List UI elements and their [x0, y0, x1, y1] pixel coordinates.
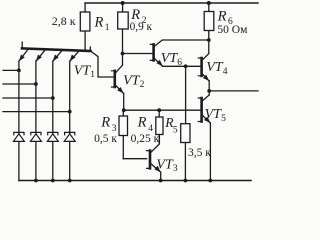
diode VD1: [13, 132, 24, 141]
wire input emitter line 3: [3, 61, 53, 181]
wire input emitter line 4: [3, 61, 70, 181]
svg-text:R: R: [217, 9, 227, 25]
svg-text:R: R: [137, 114, 147, 130]
label VT3: [156, 157, 178, 174]
label R4: [137, 114, 154, 134]
svg-text:0,25 к: 0,25 к: [131, 133, 160, 145]
node dot rail VT5 emitter: [208, 179, 212, 183]
node dot rail VT3 emitter: [159, 179, 163, 183]
node dot input 2: [34, 82, 38, 86]
resistor R3: [119, 110, 128, 159]
transistor VT5: [198, 95, 210, 181]
node dot input 3: [51, 96, 55, 100]
transistor VT1 multi-emitter base bar: [22, 42, 91, 51]
transistor VT3: [147, 135, 161, 181]
node dot rail input2: [34, 179, 38, 183]
wire vertical A to R5: [185, 66, 187, 123]
label R3: [100, 114, 116, 134]
svg-text:5: 5: [221, 114, 226, 124]
svg-text:1: 1: [90, 70, 95, 80]
svg-text:VT: VT: [74, 64, 92, 79]
label VT2: [123, 73, 145, 90]
transistor VT2: [112, 65, 124, 110]
wire VT3 base lead from R3: [123, 158, 146, 160]
transistor VT4: [198, 40, 209, 95]
resistor R2: [118, 3, 129, 65]
resistor R5: [181, 124, 190, 181]
label R1: [94, 14, 110, 33]
svg-text:VT: VT: [123, 73, 141, 88]
wire top power rail: [85, 2, 258, 4]
node dot rail input4: [68, 179, 72, 183]
wire VT6 base lead: [123, 53, 153, 55]
diode VD3: [47, 132, 58, 141]
node dot R2 top rail: [121, 1, 125, 5]
wire bottom ground rail: [19, 180, 251, 182]
wire output line: [209, 90, 258, 92]
node dot input 1: [17, 69, 21, 73]
svg-text:5: 5: [173, 126, 178, 136]
label VT4: [206, 60, 228, 77]
svg-text:VT: VT: [205, 107, 223, 122]
svg-text:VT: VT: [161, 51, 179, 66]
label R6: [217, 9, 233, 28]
VT1 emitter 2: [36, 50, 45, 62]
node dot rail input3: [51, 179, 55, 183]
resistor R4: [156, 110, 163, 144]
diode VD2: [30, 132, 41, 141]
node dot output: [207, 89, 211, 93]
svg-text:R: R: [100, 114, 110, 130]
label VT5: [205, 107, 227, 124]
svg-text:VT: VT: [156, 157, 174, 172]
node dot VT2 emitter: [122, 108, 126, 112]
svg-text:0,9 к: 0,9 к: [130, 21, 153, 33]
svg-text:1: 1: [105, 23, 110, 33]
node dot VT6 base branch: [121, 52, 125, 56]
node dot VT4 base branch: [184, 64, 188, 68]
wire input emitter line 2: [3, 61, 36, 181]
node dot R6 bottom junction: [207, 38, 211, 42]
svg-text:50 Ом: 50 Ом: [217, 24, 248, 36]
resistor R1: [80, 3, 90, 51]
wire input emitter line 1: [3, 61, 19, 181]
svg-text:4: 4: [223, 67, 228, 77]
VT1 emitter 1: [19, 49, 28, 61]
svg-text:6: 6: [177, 58, 182, 68]
label VT6: [161, 51, 183, 68]
label R5: [164, 115, 178, 135]
node dot input 4: [68, 110, 72, 114]
label VT1: [74, 64, 96, 81]
svg-text:R: R: [94, 14, 104, 30]
resistor R6: [204, 3, 214, 40]
node dot rail R5: [184, 179, 188, 183]
svg-text:2: 2: [140, 80, 145, 90]
label R2: [130, 7, 147, 26]
svg-text:3: 3: [173, 164, 178, 174]
svg-text:0,5 к: 0,5 к: [94, 133, 117, 145]
diode VD4: [64, 132, 75, 141]
wire node B horizontal: [124, 109, 201, 111]
node dot R4 top: [157, 108, 161, 112]
transistor VT6: [150, 40, 209, 66]
VT1 emitter 4: [70, 51, 79, 61]
VT1 emitter 3: [53, 50, 62, 61]
svg-text:VT: VT: [206, 60, 224, 75]
node dot R6 top rail: [207, 1, 211, 5]
svg-text:3,5 к: 3,5 к: [188, 147, 211, 159]
svg-text:2,8 к: 2,8 к: [52, 14, 76, 28]
VT1 collector wire to VT2 base: [91, 51, 114, 77]
